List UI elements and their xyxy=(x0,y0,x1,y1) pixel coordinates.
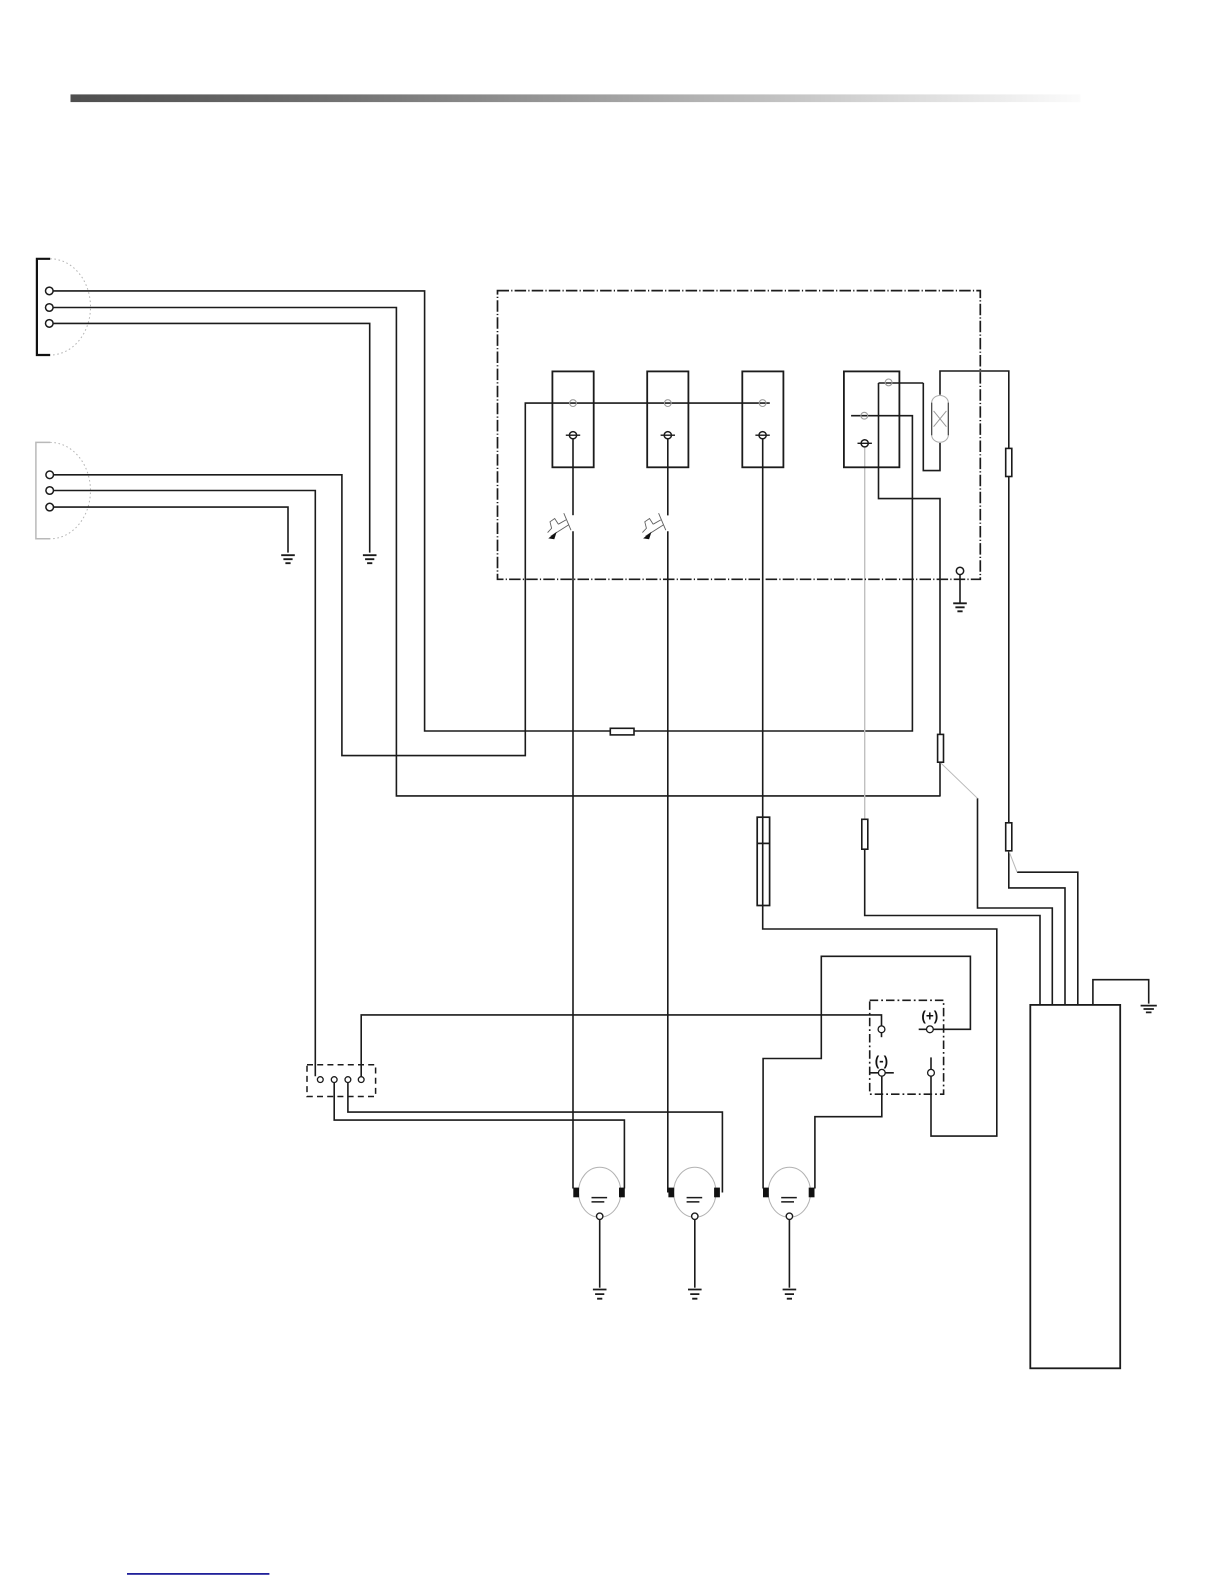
svg-text:(+): (+) xyxy=(921,1009,938,1024)
svg-text:(-): (-) xyxy=(875,1053,889,1068)
